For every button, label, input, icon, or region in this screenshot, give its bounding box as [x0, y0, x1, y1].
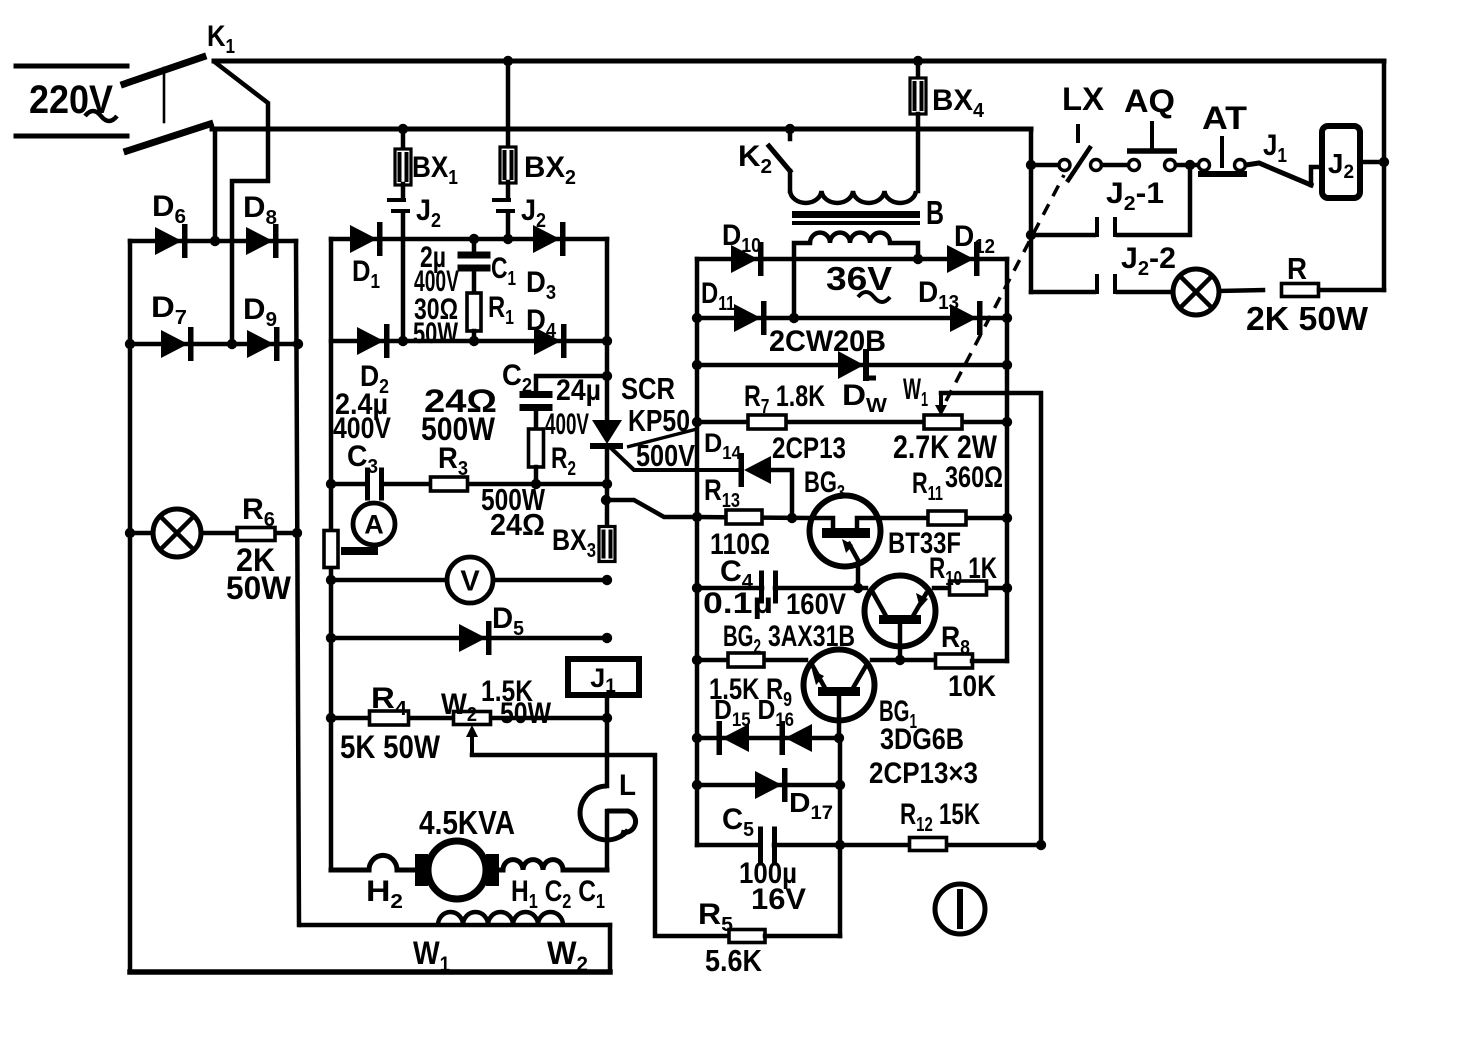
potentiometer W1 wiper arrow: [939, 393, 943, 408]
svg-text:H1 C2 C1: H1 C2 C1: [511, 875, 605, 913]
svg-text:5K 50W: 5K 50W: [340, 729, 441, 765]
node R13 row left: [692, 512, 702, 522]
wire J2-1 row left: [1031, 233, 1094, 238]
node SCR cathode row3: [602, 479, 612, 489]
node SCR gate branch: [601, 495, 611, 505]
wire control row start: [1031, 163, 1058, 168]
wire C1 column top: [472, 239, 477, 253]
svg-text:A: A: [364, 510, 384, 540]
node BG2 base on R9 row: [895, 655, 905, 665]
svg-text:0.1µ: 0.1µ: [703, 587, 773, 620]
node D7 left: [125, 339, 135, 349]
resistor R10: [950, 581, 987, 595]
svg-text:B: B: [926, 194, 944, 231]
switch J1 blade: [1246, 163, 1311, 185]
variac brush circle: [428, 841, 486, 899]
diode D9: [247, 330, 274, 358]
lamp right indicator: [1173, 269, 1219, 315]
wire C5 row left: [697, 843, 760, 848]
svg-text:50W: 50W: [500, 697, 552, 730]
svg-text:2.7K 2W: 2.7K 2W: [893, 429, 998, 465]
switch K2 blade: [769, 146, 790, 171]
wire D14 to R13 row: [771, 470, 792, 518]
node BG3 emitter on C4 row: [853, 583, 863, 593]
node R7 row left: [692, 417, 702, 427]
svg-text:J2-2: J2-2: [1121, 242, 1176, 280]
node D5 row right: [602, 633, 612, 643]
relay coil J2: [1322, 126, 1360, 198]
transistor BG3 BT33F: [810, 496, 881, 567]
wire J2 contact to row2: [401, 212, 406, 341]
wire A meter bracket: [341, 543, 374, 551]
wire left bridge right edge: [296, 241, 299, 925]
label 220V tilde: [85, 111, 117, 121]
switch K2 stub: [788, 129, 793, 139]
capacitor C4: [759, 571, 764, 604]
svg-text:4.5KVA: 4.5KVA: [419, 804, 515, 841]
wire K2 to primary: [788, 171, 793, 191]
node C4 row left: [692, 583, 702, 593]
wire R2 to row3: [534, 467, 539, 484]
wire line2 drop to D6-D8: [213, 129, 218, 241]
switch AQ contacts: [1129, 160, 1140, 171]
svg-text:24µ: 24µ: [556, 374, 601, 407]
wire BX2 fuse to J2 contact: [506, 182, 511, 199]
node row2 right: [1002, 313, 1012, 323]
diode D15: [722, 724, 749, 752]
node BX4 tap on top rail: [913, 56, 923, 66]
diode D1: [350, 225, 377, 253]
wire R13 row left: [697, 517, 810, 518]
node C5 row mid: [835, 840, 845, 850]
diode D10: [731, 245, 758, 273]
diode D7: [161, 330, 188, 358]
svg-text:50W: 50W: [226, 570, 292, 606]
svg-text:2CP13×3: 2CP13×3: [869, 757, 978, 790]
svg-text:16V: 16V: [751, 883, 806, 916]
wire K1 to D8 branch: [216, 63, 268, 344]
capacitor C3: [365, 468, 370, 501]
wire J1 to R4 row: [605, 695, 610, 718]
node zener row right: [1002, 360, 1012, 370]
pickup coil L: [580, 786, 628, 840]
fuse BX3: [599, 527, 615, 562]
SCR KP50: [592, 420, 622, 444]
indicator meter I: [935, 884, 985, 934]
node D6-D8 junction: [210, 236, 220, 246]
node R4 row right: [602, 713, 612, 723]
svg-text:2K 50W: 2K 50W: [1246, 300, 1369, 337]
wire right box right edge: [1005, 259, 1010, 661]
node BX1 row2 junction: [398, 336, 408, 346]
wire R7 row: [697, 420, 1007, 425]
node secondary right on row1: [913, 254, 923, 264]
wire line2 rail: [212, 127, 1031, 132]
contact J2-2: [1095, 274, 1099, 294]
svg-text:AT: AT: [1202, 100, 1248, 136]
wire SCR cathode: [605, 449, 610, 527]
wire middle box left edge: [329, 239, 334, 870]
winding W1W2 humps: [438, 912, 563, 925]
wire D15 row: [697, 736, 839, 741]
contact J2-1: [1095, 217, 1099, 237]
wire V row left: [331, 578, 448, 583]
transistor BG2 3AX31B: [865, 576, 936, 647]
wire R5 to BG1 base line: [765, 934, 840, 939]
node V row left: [326, 575, 336, 585]
wire J2 contact to row1: [506, 212, 511, 239]
wire J2-1 row right: [1118, 170, 1190, 235]
resistor R1: [467, 293, 481, 331]
diode D16: [785, 724, 812, 752]
switch K1 lower blade: [127, 124, 210, 151]
wire left bridge top row: [130, 239, 296, 244]
brush block left: [415, 854, 428, 886]
node D15 row left: [692, 733, 702, 743]
label 36V tilde: [858, 292, 890, 302]
wire secondary left terminal: [794, 243, 810, 318]
wire primary right: [563, 868, 607, 873]
resistor A-meter shunt: [324, 531, 338, 568]
wire C4 row left: [697, 586, 762, 591]
svg-text:SCR: SCR: [621, 371, 675, 406]
wire SCR gate: [612, 449, 737, 470]
node J2 coil tap: [1379, 157, 1389, 167]
diode D11: [734, 304, 761, 332]
node J2-1 right top: [1185, 160, 1195, 170]
wire R9 row left: [697, 658, 806, 663]
wire bottom rail: [130, 969, 610, 975]
svg-text:24Ω: 24Ω: [490, 507, 545, 542]
wire BG3 emitter lead: [856, 562, 861, 588]
fuse BX2: [500, 147, 516, 183]
transformer B core: [792, 211, 920, 218]
wire BX1 fuse to J2 contact: [401, 184, 406, 199]
wire D5 row: [331, 636, 607, 641]
winding H1C2C1 humps: [503, 860, 563, 870]
wire secondary right terminal: [890, 243, 918, 259]
resistor R6: [237, 528, 275, 541]
node D17 row right: [835, 780, 845, 790]
wire top rail: [214, 59, 1384, 64]
svg-text:R7 1.8K: R7 1.8K: [744, 380, 825, 418]
wire BG1 base down to R5: [838, 738, 843, 936]
svg-text:R10 1K: R10 1K: [929, 552, 997, 590]
svg-text:2CP13: 2CP13: [772, 432, 846, 465]
wire 220V line2 stub: [16, 134, 127, 139]
wire L to transformer: [605, 811, 610, 870]
diode D17: [755, 771, 782, 799]
wire R1 to row2: [472, 331, 477, 341]
wire row3 left: [331, 482, 363, 487]
wire R9 row right: [872, 658, 936, 663]
voltmeter V: [447, 557, 493, 603]
node D7-D9 junction: [227, 339, 237, 349]
node K2 tap on line2: [785, 124, 795, 134]
node BG1 base on D15 row: [834, 733, 844, 743]
wire J2-2 row left: [1031, 290, 1094, 295]
resistor R4: [370, 711, 409, 725]
svg-text:R: R: [1287, 251, 1307, 286]
node R10 right: [1002, 583, 1012, 593]
node R4 row left: [326, 713, 336, 723]
wire BX1 branch: [401, 129, 406, 150]
wire right box row2: [697, 316, 1007, 321]
node D17 row left: [692, 780, 702, 790]
ammeter A: [353, 503, 395, 545]
svg-text:V: V: [460, 565, 480, 597]
label KP50-500V slash: [627, 429, 697, 447]
resistor R13: [726, 510, 762, 524]
resistor R8: [936, 654, 973, 668]
transformer B secondary: [810, 233, 890, 243]
wire BX4 to primary: [916, 114, 921, 191]
svg-text:AQ: AQ: [1124, 83, 1175, 119]
fuse BX1: [395, 149, 411, 185]
wire lamp to R: [1219, 290, 1263, 291]
node lamp row right: [292, 528, 302, 538]
node D5 row left: [326, 633, 336, 643]
wire R8 to right edge: [972, 659, 1007, 664]
svg-text:160V: 160V: [786, 588, 846, 621]
node row2 right edge: [602, 336, 612, 346]
resistor R: [1282, 284, 1319, 297]
svg-text:500V: 500V: [636, 438, 695, 473]
node control row left: [1026, 160, 1036, 170]
node C2 branch on right edge: [602, 371, 612, 381]
switch LX contacts: [1059, 160, 1070, 171]
node row2 left: [692, 313, 702, 323]
lamp left indicator: [153, 509, 201, 557]
svg-text:BT33F: BT33F: [888, 527, 961, 560]
wire BG1 base lead: [837, 696, 842, 738]
contact J2 under BX2: [492, 198, 511, 202]
wire C5 row right: [774, 843, 1041, 848]
node D9 right: [293, 339, 303, 349]
svg-text:LX: LX: [1062, 81, 1105, 117]
resistor R9: [728, 653, 764, 667]
potentiometer W2 wiper arrow: [470, 734, 474, 755]
wire row3 right: [384, 482, 607, 487]
wire brush to humps: [499, 868, 503, 873]
wire AQ to AT: [1176, 163, 1198, 168]
dashed link W1-LX: [946, 175, 1064, 401]
node D14 drop: [787, 513, 797, 523]
brush block right: [486, 854, 499, 886]
capacitor C2: [520, 391, 553, 398]
wire LX to AQ: [1102, 163, 1128, 168]
wire W right edge: [608, 925, 613, 972]
wire J2-2 to lamp: [1118, 290, 1173, 295]
wire right vertical: [1382, 61, 1387, 290]
node BX2 tap on top rail: [503, 56, 513, 66]
wire left bridge left edge: [128, 241, 133, 972]
node BX2 row1 junction: [503, 234, 513, 244]
wire right box row1: [697, 257, 1007, 262]
wire 220V line1 stub: [16, 64, 127, 69]
switch J1 hook: [1311, 167, 1322, 185]
transistor BG1 3DG6B: [804, 650, 875, 721]
node C1 top: [469, 234, 479, 244]
diode D12: [947, 245, 974, 273]
svg-text:360Ω: 360Ω: [945, 461, 1003, 494]
svg-text:J2-1: J2-1: [1106, 177, 1164, 215]
wire C2 branch: [536, 376, 607, 393]
wire BX2 branch: [506, 61, 511, 148]
diode D6: [155, 227, 182, 255]
wire middle box row1: [331, 237, 607, 242]
contact J2 under BX1: [387, 198, 406, 202]
switch K1 link: [163, 68, 166, 122]
node V row right: [602, 575, 612, 585]
node BX1 tap on line2: [398, 124, 408, 134]
node R12 right: [1036, 840, 1046, 850]
node R9 row left: [692, 655, 702, 665]
svg-text:L: L: [619, 769, 636, 802]
diode D2: [357, 327, 384, 355]
diode D4: [534, 327, 561, 355]
fuse BX4: [910, 78, 926, 114]
resistor R3: [431, 477, 468, 491]
winding H2 hump: [369, 855, 397, 870]
resistor R7: [748, 415, 786, 429]
wire C1 to R1: [472, 271, 477, 294]
resistor R12: [910, 838, 947, 851]
wire D17 row: [697, 783, 840, 788]
wire middle box row2: [331, 339, 607, 344]
wire left bridge bottom row: [130, 342, 298, 347]
wire right box left edge: [695, 259, 700, 845]
wire V row right: [492, 578, 607, 583]
wire J2 coil to right vertical: [1360, 160, 1384, 165]
wire W winding line: [301, 923, 610, 928]
resistor R5: [729, 930, 765, 943]
wire primary left: [331, 868, 369, 873]
node R7 row right: [1002, 417, 1012, 427]
node secondary left on row2: [789, 313, 799, 323]
svg-text:50W: 50W: [413, 317, 458, 350]
diode D13: [950, 304, 977, 332]
svg-text:10K: 10K: [948, 670, 996, 703]
resistor R2: [529, 429, 544, 467]
potentiometer W2: [454, 712, 491, 725]
transformer B primary: [790, 191, 916, 203]
wire zener row: [697, 363, 1007, 368]
wire lamp row: [130, 531, 298, 536]
zener diode DW 2CW20B: [838, 351, 864, 379]
wire BG2 base lead: [898, 624, 903, 660]
wire BG2 collector to R10: [934, 586, 1007, 591]
node R2 bottom: [531, 479, 541, 489]
svg-text:3DG6B: 3DG6B: [880, 723, 964, 756]
wire C2 to R2: [534, 411, 539, 430]
wire R13 row right: [881, 516, 1007, 521]
resistor R11: [928, 511, 966, 525]
wire C4 row mid: [775, 586, 866, 591]
wire R to right vertical: [1319, 288, 1384, 293]
diode D5: [459, 624, 486, 652]
wire W2 wiper to R5: [472, 755, 729, 936]
diode D14 2CP13: [744, 456, 771, 484]
switch AT contacts: [1199, 160, 1210, 171]
node row3 left edge: [326, 479, 336, 489]
switch K1 upper blade: [124, 57, 203, 84]
diode D8: [246, 227, 273, 255]
node R1 bottom: [469, 336, 479, 346]
svg-text:400V: 400V: [545, 408, 589, 441]
wire BX4 drop: [916, 61, 921, 78]
wire W1 wiper feedback: [941, 393, 1041, 843]
node zener row left: [692, 360, 702, 370]
capacitor C5: [758, 827, 763, 864]
diode D3: [533, 225, 560, 253]
wire left vertical of control: [1029, 129, 1034, 292]
svg-text:36V: 36V: [826, 260, 892, 297]
wire R4 row: [331, 716, 607, 721]
wire middle box right edge upper: [605, 239, 610, 420]
svg-text:R12 15K: R12 15K: [900, 798, 980, 836]
capacitor C1: [458, 252, 491, 259]
potentiometer W1: [924, 415, 962, 429]
node R11 row right: [1002, 513, 1012, 523]
wire J1 right edge down to L: [605, 718, 610, 786]
wire hump to brush: [397, 868, 420, 873]
node lamp row left: [125, 528, 135, 538]
wire SCR cathode to R13 row: [606, 500, 697, 517]
node J2-1 left: [1026, 230, 1036, 240]
svg-text:500W: 500W: [421, 411, 496, 447]
svg-text:5.6K: 5.6K: [705, 943, 763, 978]
relay coil J1: [568, 659, 639, 695]
